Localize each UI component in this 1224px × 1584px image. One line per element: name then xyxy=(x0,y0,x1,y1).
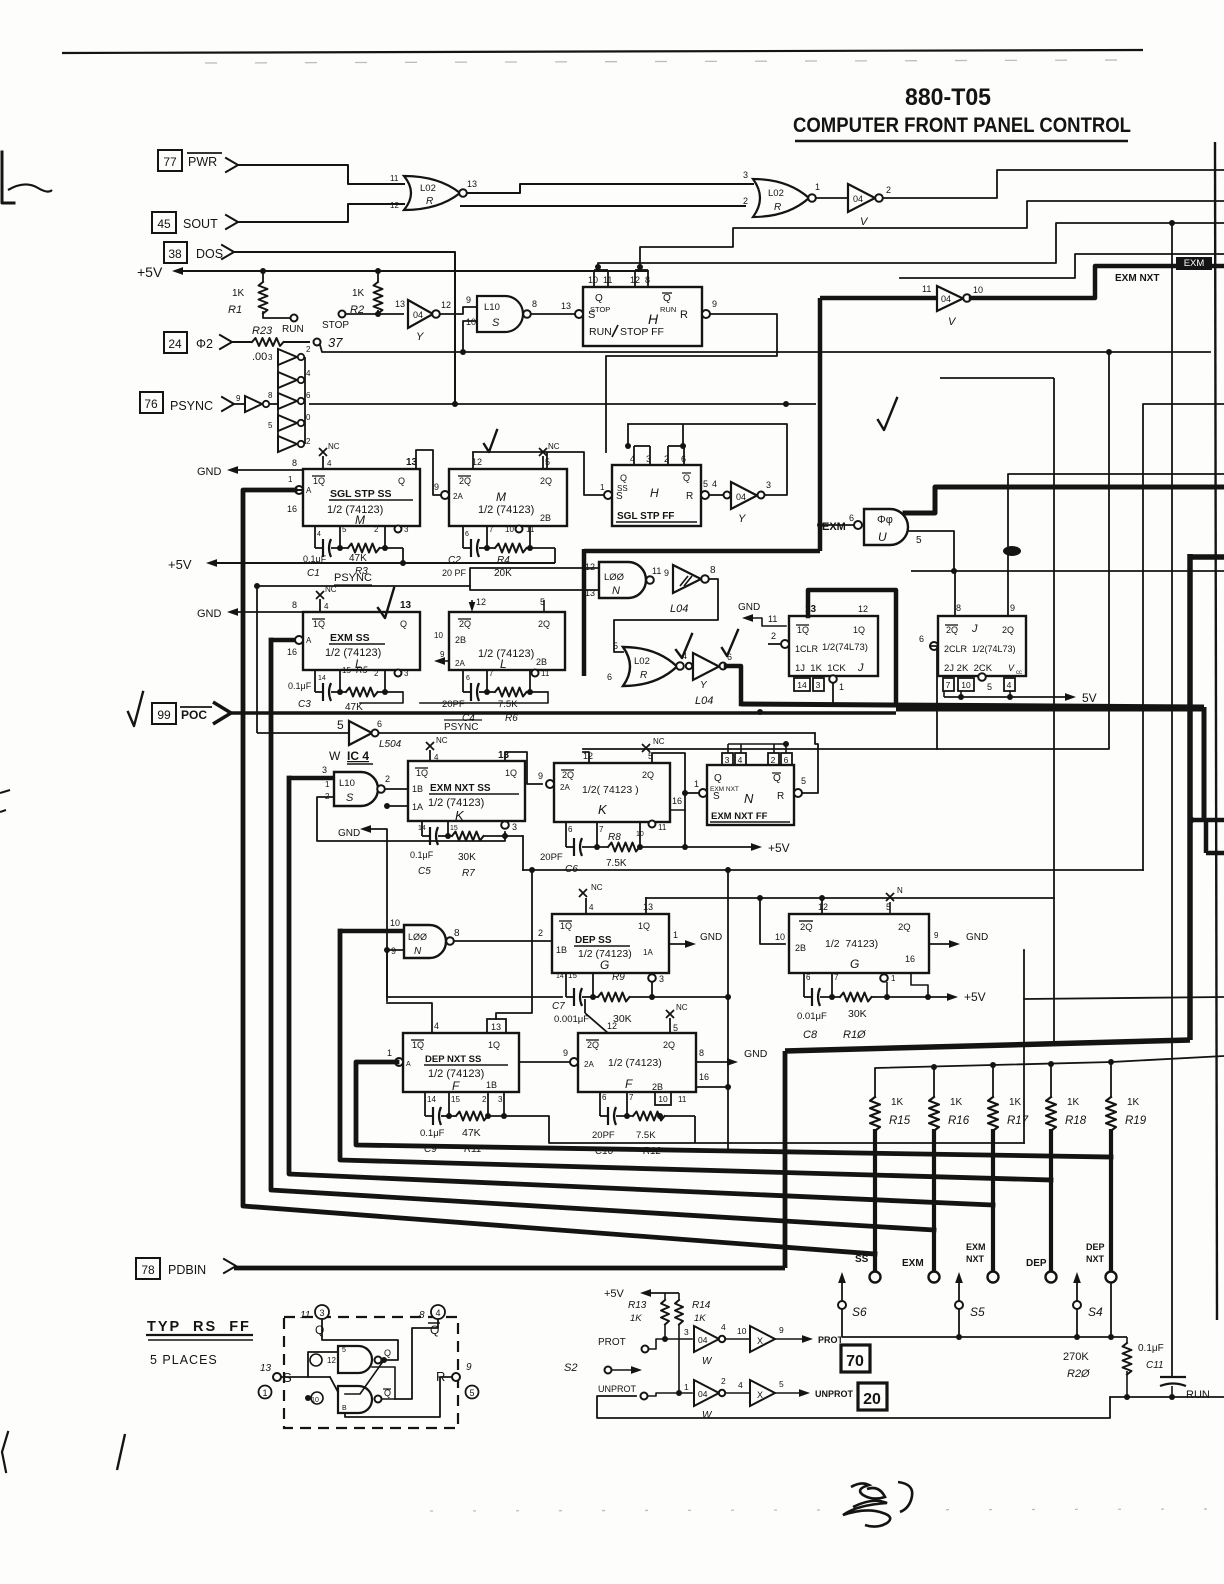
svg-text:R9: R9 xyxy=(612,972,625,983)
svg-text:14: 14 xyxy=(427,1095,436,1104)
svg-text:8: 8 xyxy=(292,600,297,610)
svg-text:15: 15 xyxy=(451,1095,460,1104)
svg-text:1B: 1B xyxy=(556,945,567,955)
svg-text:2CLR: 2CLR xyxy=(944,644,968,654)
svg-text:11: 11 xyxy=(658,823,667,832)
svg-text:6: 6 xyxy=(607,672,612,682)
wire PSYNC drop from chain line xyxy=(256,586,258,733)
svg-text:2: 2 xyxy=(374,669,379,678)
svg-text:4: 4 xyxy=(712,479,717,489)
svg-text:A: A xyxy=(406,1061,411,1068)
wire G1 RC to 728 xyxy=(652,996,728,998)
svg-text:1A: 1A xyxy=(643,948,653,957)
node terminal under R17 xyxy=(988,1272,999,1283)
svg-text:S6: S6 xyxy=(852,1305,867,1319)
svg-text:NC: NC xyxy=(325,585,337,594)
flip-flop H2 SGL STP FF xyxy=(612,465,701,526)
scribble blob on pin9 wire xyxy=(1003,546,1021,556)
node STOP contact xyxy=(339,311,346,318)
svg-text:PSYNC: PSYNC xyxy=(170,399,213,413)
wire switch common line xyxy=(842,1336,1127,1338)
svg-text:Q: Q xyxy=(400,619,407,629)
inverter V1 04 xyxy=(816,197,848,199)
svg-text:7.5K: 7.5K xyxy=(636,1130,656,1141)
wire J1 clr input xyxy=(768,643,781,645)
wire K1 RC right down xyxy=(522,836,524,870)
svg-text:2A: 2A xyxy=(560,783,570,792)
svg-text:SS: SS xyxy=(855,1254,869,1265)
wire H R feedback xyxy=(606,314,777,452)
wire thick top bus to right xyxy=(785,1040,1190,1051)
svg-text:9: 9 xyxy=(440,650,445,659)
svg-text:L02: L02 xyxy=(634,656,650,667)
svg-text:Y: Y xyxy=(416,331,424,343)
svg-text:1A: 1A xyxy=(412,802,423,812)
svg-text:1J 1K 1CK: 1J 1K 1CK xyxy=(795,663,846,674)
svg-text:3: 3 xyxy=(498,1095,503,1104)
svg-text:8: 8 xyxy=(292,458,297,468)
wire M2 pin12 up xyxy=(472,452,474,469)
wire K row to J row long line xyxy=(583,351,1109,749)
svg-text:9: 9 xyxy=(434,482,439,492)
svg-text:2Q: 2Q xyxy=(587,1040,599,1050)
svg-text:Q: Q xyxy=(714,773,722,784)
svg-text:2J 2K 2CK: 2J 2K 2CK xyxy=(944,663,993,674)
svg-text:4: 4 xyxy=(434,753,439,762)
one-shot L1 EXM SS xyxy=(303,612,420,670)
svg-text:0.1μF: 0.1μF xyxy=(288,681,312,691)
svg-text:10: 10 xyxy=(737,1326,747,1336)
svg-text:13: 13 xyxy=(395,299,405,309)
wire PDBIN thick xyxy=(234,1266,785,1271)
node R17 bus junction xyxy=(992,1065,994,1097)
svg-text:13: 13 xyxy=(561,301,571,311)
label EXM reversed patch xyxy=(1176,257,1212,270)
resistor R17 1K xyxy=(988,1097,998,1131)
svg-text:15: 15 xyxy=(342,666,351,675)
svg-text:cc: cc xyxy=(1016,670,1022,676)
node bus C junction xyxy=(1169,220,1175,226)
check mark POC xyxy=(128,692,143,726)
svg-text:1: 1 xyxy=(891,974,896,983)
svg-text:LØØ: LØØ xyxy=(604,572,625,583)
wire RS R input xyxy=(345,1377,452,1417)
pins J1 bottom boxed xyxy=(794,678,810,691)
one-shot G2 xyxy=(789,914,929,973)
svg-text:24: 24 xyxy=(168,337,182,351)
svg-text:7: 7 xyxy=(489,669,494,678)
gate L02a nor xyxy=(404,176,460,210)
svg-text:6: 6 xyxy=(727,652,732,662)
svg-text:9: 9 xyxy=(391,946,396,956)
wire F2 RC to loop xyxy=(694,1116,696,1143)
svg-text:2Q: 2Q xyxy=(459,619,471,629)
svg-text:20PF: 20PF xyxy=(592,1130,615,1141)
wire U out 5 xyxy=(908,531,954,571)
wire F2 16 xyxy=(696,1086,728,1088)
svg-text:DEP NXT SS: DEP NXT SS xyxy=(425,1054,481,1065)
flip-flop J1 74L73 xyxy=(789,616,878,676)
one-shot L2 xyxy=(449,612,565,670)
svg-text:C2: C2 xyxy=(448,555,461,566)
svg-text:G: G xyxy=(850,957,859,971)
svg-text:1Q: 1Q xyxy=(313,476,325,486)
svg-text:L02: L02 xyxy=(768,188,784,199)
node thick junction to U xyxy=(817,522,823,528)
svg-text:12: 12 xyxy=(818,902,828,912)
svg-text:10: 10 xyxy=(775,932,785,942)
svg-text:DEP: DEP xyxy=(1026,1258,1047,1269)
svg-text:7: 7 xyxy=(946,680,951,690)
svg-text:12: 12 xyxy=(585,562,595,572)
wire thick L00b input10 xyxy=(340,929,404,934)
wire K2 pin12 riser xyxy=(583,752,589,763)
svg-text:EXM: EXM xyxy=(902,1258,924,1269)
svg-text:3: 3 xyxy=(322,765,327,775)
node terminal under R18 xyxy=(1046,1272,1057,1283)
pin F1 13 riser xyxy=(487,1019,506,1033)
svg-text:2Q: 2Q xyxy=(663,1040,675,1050)
svg-text:5: 5 xyxy=(673,1023,678,1033)
svg-text:4: 4 xyxy=(324,602,329,611)
wire GND riser to K1 1A xyxy=(387,805,408,807)
wire thick right riser xyxy=(1187,554,1193,1040)
wire PSYNC buffered line xyxy=(379,732,815,734)
svg-text:H: H xyxy=(648,311,659,327)
svg-text:11: 11 xyxy=(526,525,535,534)
svg-text:0.01μF: 0.01μF xyxy=(797,1011,827,1022)
svg-text:3: 3 xyxy=(512,822,517,832)
svg-text:2B: 2B xyxy=(540,513,551,523)
svg-text:5: 5 xyxy=(342,525,347,534)
svg-text:12: 12 xyxy=(441,300,451,310)
connector 78 PDBIN xyxy=(136,1258,160,1279)
pins G2 bottom + RC C8 R10 xyxy=(803,973,805,997)
resistor R16 1K xyxy=(929,1097,939,1131)
svg-text:R: R xyxy=(777,791,784,802)
svg-text:R: R xyxy=(680,309,688,321)
svg-text:NC: NC xyxy=(653,737,665,746)
svg-text:S: S xyxy=(492,317,500,329)
pin L1 4 NC xyxy=(319,599,321,612)
svg-text:12: 12 xyxy=(327,1356,336,1365)
svg-text:13: 13 xyxy=(260,1363,272,1374)
svg-text:16: 16 xyxy=(672,796,682,806)
wire bus line D xyxy=(900,254,1224,278)
wire L00b out to G1 xyxy=(454,940,552,942)
wire K1 Q to K2 2A xyxy=(505,752,542,784)
wire Y2 out loop to H2 pins xyxy=(628,424,787,495)
svg-text:1K: 1K xyxy=(630,1313,642,1324)
svg-text:11: 11 xyxy=(541,669,550,678)
svg-text:+5V: +5V xyxy=(768,841,790,855)
svg-text:2B: 2B xyxy=(455,635,466,645)
svg-text:12: 12 xyxy=(858,604,868,614)
wire thick right edge loops xyxy=(1189,818,1224,823)
svg-text:X: X xyxy=(757,1390,763,1400)
svg-text:0.1μF: 0.1μF xyxy=(1138,1343,1164,1354)
svg-text:GND: GND xyxy=(966,932,988,943)
svg-text:4: 4 xyxy=(738,755,743,765)
svg-text:IC 4: IC 4 xyxy=(347,749,369,763)
svg-text:POC: POC xyxy=(181,708,207,722)
one-shot G1 DEP SS xyxy=(552,914,669,973)
svg-text:270K: 270K xyxy=(1063,1351,1089,1363)
wire to G2 2B xyxy=(760,898,785,944)
connector 77 PWR xyxy=(158,150,182,171)
wire PWR to gate L02a xyxy=(238,165,404,184)
svg-text:1/2 (74123): 1/2 (74123) xyxy=(478,504,534,516)
scan artifact left edge bracket xyxy=(2,152,14,203)
wire J2 bottom to 5V xyxy=(943,691,945,697)
svg-text:L: L xyxy=(500,657,507,671)
svg-text:1: 1 xyxy=(600,483,605,492)
svg-text:PSYNC: PSYNC xyxy=(334,572,372,584)
svg-text:GND: GND xyxy=(338,828,360,839)
svg-text:2B: 2B xyxy=(652,1082,663,1092)
svg-text:0: 0 xyxy=(306,413,311,422)
wire thick L2 feedthrough xyxy=(583,549,585,590)
svg-text:2Q: 2Q xyxy=(642,770,654,780)
svg-text:9: 9 xyxy=(466,1362,472,1373)
svg-text:L10: L10 xyxy=(339,778,355,789)
svg-text:EXM: EXM xyxy=(1184,258,1205,269)
svg-text:10: 10 xyxy=(961,680,971,690)
svg-text:2Q: 2Q xyxy=(898,922,911,933)
svg-text:77: 77 xyxy=(163,155,177,169)
svg-text:R: R xyxy=(426,196,433,207)
wire N S input xyxy=(685,792,699,794)
svg-text:V: V xyxy=(1008,663,1015,673)
wire PDBIN riser thick xyxy=(783,1051,788,1268)
svg-text:R6: R6 xyxy=(505,713,518,724)
svg-text:6: 6 xyxy=(806,973,811,982)
wire thick bus SS xyxy=(243,490,875,1254)
svg-text:2: 2 xyxy=(374,525,379,534)
wire K2 16 to rail xyxy=(670,809,685,811)
wire vertical 1054 xyxy=(1053,378,1055,1043)
svg-text:F: F xyxy=(625,1077,633,1091)
wire L04a out loop to L02c xyxy=(614,579,718,652)
node RUN contact xyxy=(291,315,298,322)
svg-text:2B: 2B xyxy=(536,657,547,667)
svg-text:1/2 (74123): 1/2 (74123) xyxy=(608,1057,662,1069)
wire chain output long line xyxy=(309,403,816,405)
svg-text:7.5K: 7.5K xyxy=(498,699,518,710)
svg-text:R17: R17 xyxy=(1007,1115,1029,1127)
svg-text:6: 6 xyxy=(377,719,382,729)
pins J2 bottom boxed xyxy=(943,678,954,691)
svg-text:3: 3 xyxy=(404,525,409,534)
svg-text:NC: NC xyxy=(676,1003,688,1012)
pin G1 4 NC xyxy=(585,898,587,914)
pins F2 bottom + RC C10 R12 xyxy=(599,1092,601,1116)
svg-text:NC: NC xyxy=(548,442,560,451)
svg-text:2: 2 xyxy=(306,437,311,446)
wire PHI2 long line right xyxy=(320,345,1210,352)
svg-text:9: 9 xyxy=(236,394,241,403)
svg-text:SGL STP SS: SGL STP SS xyxy=(330,488,391,500)
svg-text:5: 5 xyxy=(801,776,806,786)
svg-text:5: 5 xyxy=(268,421,273,430)
scan artifact left edge marks lower xyxy=(0,790,10,793)
svg-text:N: N xyxy=(612,585,620,597)
svg-text:C5: C5 xyxy=(418,866,431,877)
check mark above H2 xyxy=(878,398,897,430)
svg-text:GND: GND xyxy=(197,608,222,620)
wire G2 RC rail to +5V xyxy=(878,996,950,998)
wire SOUT branch to gate L02b xyxy=(460,205,746,207)
svg-text:V: V xyxy=(948,316,957,328)
buffer X1 xyxy=(725,1338,749,1340)
svg-text:11: 11 xyxy=(390,174,399,183)
wire thick R17 to terminal xyxy=(991,1129,995,1271)
svg-text:PROT: PROT xyxy=(598,1337,626,1348)
svg-text:W: W xyxy=(702,1410,713,1421)
svg-text:0.001μF: 0.001μF xyxy=(554,1014,589,1025)
svg-text:R: R xyxy=(774,202,781,213)
wire M2 top bridge to SGL-STP-FF S xyxy=(473,452,604,495)
svg-text:3: 3 xyxy=(404,669,409,678)
svg-text:6: 6 xyxy=(466,675,470,682)
svg-text:7.5K: 7.5K xyxy=(606,858,627,869)
inverter chain column of 5 xyxy=(278,349,297,365)
node R19 bus junction xyxy=(1110,1062,1112,1097)
svg-text:2Q: 2Q xyxy=(540,476,552,486)
wire L00b in9 down to RC line xyxy=(387,950,562,997)
node terminal under R15 xyxy=(870,1272,881,1283)
pin K1 4 NC xyxy=(429,750,431,761)
svg-text:9: 9 xyxy=(1010,603,1015,613)
svg-text:PWR: PWR xyxy=(188,155,217,169)
svg-text:6: 6 xyxy=(784,755,789,765)
svg-text:8: 8 xyxy=(699,1048,704,1058)
buffer X2 xyxy=(725,1392,749,1394)
svg-text:1: 1 xyxy=(815,182,820,192)
svg-text:20K: 20K xyxy=(494,568,512,579)
wire thick R18 to terminal xyxy=(1049,1129,1053,1271)
svg-text:R: R xyxy=(686,491,693,502)
svg-text:4: 4 xyxy=(327,459,332,468)
svg-text:9: 9 xyxy=(538,771,543,781)
svg-text:14: 14 xyxy=(418,825,426,832)
svg-text:Q: Q xyxy=(315,1323,324,1337)
svg-text:1K: 1K xyxy=(352,288,365,299)
svg-text:04: 04 xyxy=(853,194,863,204)
wire L00b input9 from below xyxy=(387,949,404,951)
wire thick L10b input3 xyxy=(289,776,334,781)
svg-text:99: 99 xyxy=(157,708,171,722)
svg-text:1/2(74L73): 1/2(74L73) xyxy=(822,642,868,653)
svg-text:N: N xyxy=(744,791,754,806)
svg-text:10: 10 xyxy=(973,285,983,295)
svg-text:9: 9 xyxy=(466,295,471,305)
svg-text:1B: 1B xyxy=(486,1080,497,1090)
svg-text:12: 12 xyxy=(607,1021,617,1031)
svg-text:4: 4 xyxy=(589,903,594,912)
svg-text:1: 1 xyxy=(673,930,678,940)
svg-text:7: 7 xyxy=(629,1093,634,1102)
svg-text:11: 11 xyxy=(922,284,931,294)
svg-text:16: 16 xyxy=(699,1072,709,1082)
svg-text:1Q: 1Q xyxy=(488,1040,500,1050)
svg-text:2A: 2A xyxy=(453,492,463,501)
wire L10b input2 feedback xyxy=(317,797,505,841)
wire N pins up xyxy=(727,744,729,753)
svg-text:04: 04 xyxy=(698,1335,708,1345)
svg-text:8: 8 xyxy=(454,928,460,939)
svg-text:S4: S4 xyxy=(1088,1305,1103,1319)
svg-text:8: 8 xyxy=(419,1310,425,1321)
node terminal under R16 xyxy=(929,1272,940,1283)
wire thick right leg down xyxy=(1202,707,1207,822)
svg-text:PSYNC: PSYNC xyxy=(444,722,478,733)
svg-text:EXM: EXM xyxy=(822,521,846,533)
svg-text:STOP: STOP xyxy=(322,320,349,331)
svg-text:STOP: STOP xyxy=(590,305,610,314)
svg-text:8: 8 xyxy=(710,565,716,576)
svg-text:A: A xyxy=(306,636,312,645)
svg-text:2B: 2B xyxy=(795,943,806,953)
svg-text:EXM NXT FF: EXM NXT FF xyxy=(711,811,768,822)
wire gate input from PHI2 line xyxy=(463,321,477,352)
wire L1 RC down to rail xyxy=(360,692,403,703)
one-shot F2 xyxy=(578,1033,696,1092)
svg-text:Φ2: Φ2 xyxy=(196,337,213,351)
svg-text:RUN: RUN xyxy=(282,324,304,335)
connector 38 DOS xyxy=(164,242,187,263)
svg-text:3: 3 xyxy=(766,480,771,490)
page border right edge line xyxy=(1215,142,1217,1320)
svg-text:J: J xyxy=(857,662,864,674)
svg-text:1/2 (74123): 1/2 (74123) xyxy=(325,647,381,659)
svg-text:47K: 47K xyxy=(462,1127,481,1139)
svg-text:Q: Q xyxy=(595,293,603,304)
svg-text:X: X xyxy=(757,1336,763,1346)
svg-text:20: 20 xyxy=(863,1391,881,1408)
resistor R18 1K xyxy=(1046,1097,1056,1131)
svg-text:04: 04 xyxy=(941,294,951,304)
box 70 xyxy=(841,1345,870,1372)
svg-text:DEP: DEP xyxy=(1086,1242,1105,1252)
svg-text:Q: Q xyxy=(398,476,405,486)
wire thick bus EXM xyxy=(271,640,934,1230)
gate L02b nor xyxy=(753,179,809,217)
svg-text:5: 5 xyxy=(469,1388,474,1398)
svg-text:PDBIN: PDBIN xyxy=(168,1263,206,1277)
svg-text:5: 5 xyxy=(987,682,992,692)
wire thick R15 to terminal xyxy=(873,1129,877,1271)
wires RS ff xyxy=(281,1376,330,1378)
wire thick from bus into V2 xyxy=(820,296,937,301)
svg-text:LØØ: LØØ xyxy=(408,932,427,942)
svg-text:7: 7 xyxy=(834,973,839,982)
svg-text:1: 1 xyxy=(387,1048,392,1058)
svg-text:R4: R4 xyxy=(497,555,510,566)
svg-text:3: 3 xyxy=(816,680,821,690)
wire inverter chain left rail xyxy=(277,349,279,444)
wire SOUT to gate L02a xyxy=(238,204,404,222)
pins M2 bottom + RC C2 R4 xyxy=(462,526,464,548)
wire thick bus DEP NXT xyxy=(356,1062,1111,1157)
svg-text:R23: R23 xyxy=(252,325,273,337)
svg-text:RUN: RUN xyxy=(1186,1389,1210,1401)
svg-text:2: 2 xyxy=(482,1095,487,1104)
svg-text:1B: 1B xyxy=(412,784,423,794)
svg-text:5: 5 xyxy=(613,641,618,651)
node R18 bus junction xyxy=(1050,1064,1052,1097)
svg-text:Y: Y xyxy=(700,680,708,691)
